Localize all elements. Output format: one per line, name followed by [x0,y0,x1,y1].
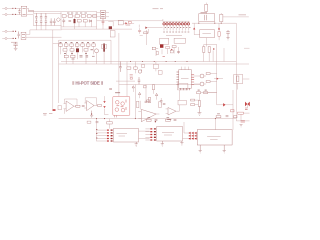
label in box [202,33,211,35]
rail top long y20.8 [97,20,163,22]
op-amp U6B [168,108,176,116]
red diode stack D12 [102,101,107,108]
top right box U3 [199,14,215,21]
resistor [166,119,171,121]
wire [238,79,250,90]
IC2 label [207,137,221,140]
junction dot [155,121,156,122]
below-comb parts marks [156,47,179,56]
transformer B ground 1 [161,141,164,146]
capacitor C24 [160,101,163,102]
box above right 2 [178,100,186,105]
label mark [239,14,247,16]
red diode D5 [218,27,220,29]
cluster left of comb marks [139,25,148,36]
cluster left of comb capacitor C9 [138,30,141,31]
small part vertical [156,52,158,55]
row1 resistor R15 [59,44,63,46]
box around bar [102,44,107,48]
capacitor CY5 [45,13,47,20]
winding grid B left stubs [145,129,150,140]
resistor R50 vertical [152,85,154,90]
wire [194,23,200,35]
varistor RV1 marks [12,8,16,9]
transistor Q1 [109,26,112,29]
row3 box2 [64,55,68,57]
resistor R5 [75,15,79,17]
resistor R3 [62,15,66,17]
capacitor CY1 [35,13,37,20]
wire to fuse [27,9,34,26]
choke L2 box [21,32,26,39]
parts row above transformer B [147,119,152,121]
capacitor CX1 [18,9,20,15]
red LED D11 [53,109,56,111]
op-amp U5B pins [84,103,97,108]
winding grid B red dashes col2 [154,129,156,140]
parts above rail left [43,114,52,115]
junction dots rail [96,118,216,119]
wire to pins [183,122,189,139]
row1 resistor R18 [75,44,79,46]
rail y64 [59,63,249,65]
winding grid B red dashes col1 [150,129,152,140]
parts right of U5B resistor R42 [98,105,102,107]
red transistor Q8 [116,101,120,105]
wire [217,90,233,105]
op-amp U6A big [141,109,156,121]
winding grid A red dashes col1 [107,130,109,141]
wire [199,93,216,101]
wires right edge [236,104,249,121]
transformer B ground 2 [180,141,183,145]
capacitor CX2 [18,31,20,38]
ground U5B [90,111,93,118]
row2 resistor R23 [70,49,74,51]
row1 resistor R20 [86,44,90,46]
ground IC2 left [199,145,202,153]
box U4 [200,30,215,38]
red box bottom stubs [115,115,117,117]
rail y29.9 [30,29,62,31]
row2 capacitor C5 [62,19,65,24]
cluster verticals [61,46,105,64]
comb vertical leads [164,21,188,30]
fuse F1 [29,10,34,12]
inductor box L4 [174,38,185,43]
resistor R33 [206,73,210,75]
varistor RV4 marks [13,38,17,39]
marks [217,113,220,115]
transistor Q6 [200,74,204,78]
transformer A label [117,133,128,136]
wire input bottom [2,14,12,16]
below-comb red resistor R27 [166,47,170,49]
label above red box [115,92,120,94]
connector P1 circle [5,8,7,10]
part below rail [87,121,91,123]
op-amp U6B pins [166,109,180,114]
Y-cap stubs to rail [36,26,46,30]
wire output right [236,16,249,18]
comb diodes D10..D18 rings [163,23,190,25]
small box part [152,47,155,50]
row3 box [71,55,75,57]
IC U2 bottom pin marks [181,88,190,90]
connector P1 circle 2 [5,14,7,16]
inductor box L3 [160,38,169,44]
right mid cluster resistor R36 [197,92,201,94]
capacitor C10 [226,30,230,36]
red diode D7 [217,78,219,80]
capacitor CY2 [35,20,37,25]
input cluster wires/verticals [61,16,119,29]
parts left of U6B: resistor [159,102,161,108]
red dash [163,56,165,58]
wires verticals [135,85,146,119]
component above: resistor R12 [205,4,208,11]
op-amp U5B feedback wire [85,98,96,106]
wire [218,23,220,40]
part above winding grid A [107,122,113,124]
row2 dark transistor Q2 [74,19,76,23]
red mark [130,78,132,80]
row2 resistor R24 [84,49,88,51]
rail y118.6 [59,118,237,120]
input cluster label text row [67,12,87,14]
rail AC top [33,12,61,14]
wire top from fuse [33,10,96,12]
wire [105,96,109,115]
ground IC2 right [223,145,226,153]
vertical x224 [223,48,225,62]
ground under C10 [226,36,229,40]
parts between amps resistor R41 [76,105,80,107]
op-amp U5A [66,101,74,111]
red cluster right edge: resistor R39 [238,112,244,114]
vertical x111 [110,40,112,64]
below-comb dark red part C13 [160,44,163,47]
wire [53,43,62,45]
row2 resistor R8 [83,20,87,22]
capacitor CY6 [45,20,47,25]
capacitor CY earth [13,42,17,47]
resistor R46 [191,104,195,106]
vertical x216.7 [216,62,218,91]
red diode D8 [223,103,226,106]
box part [170,50,173,53]
resistor R6c [93,15,97,17]
wire from choke2 [26,30,62,37]
capacitor C8 [102,19,105,26]
resistor R6 [81,15,85,17]
wire input2 bottom [2,38,12,40]
parts above U6A: resistor R44b [147,100,150,102]
cluster left of comb resistor R10 [144,32,148,34]
box near Q1 [110,31,115,37]
transformer B box [157,127,183,142]
connector P2 circle [5,30,7,32]
wire grid A top [109,119,111,129]
junction dots [198,23,222,24]
varistor RV2 marks [12,14,16,15]
junction dots on rail [130,61,188,62]
wires right of IC [194,74,223,85]
wire [16,9,22,15]
dark bar component [103,44,105,52]
IC label [181,78,189,80]
op-amp U5A pins [64,104,76,109]
driver transformer T3 box [100,11,106,19]
wire vertical right x236.3 [235,23,237,121]
small box part [142,65,145,68]
row2 resistor R7 [77,20,81,22]
wire input top [2,8,12,10]
resistor R51 vertical [148,97,150,102]
ground [198,106,202,115]
resistor R37 [204,92,208,94]
wire [97,12,109,16]
resistor R6b [87,15,91,17]
red diode right edge [245,102,250,107]
connector P2 circle 2 [5,38,7,40]
wire [119,23,134,29]
diode D14 [132,86,134,88]
wire [116,80,135,82]
row2 transistor Q4 [95,49,99,53]
part R49 [144,86,147,88]
row2 marks [64,50,93,54]
IC U2 right pins red [191,75,194,85]
transformer B label [162,132,174,135]
comb value labels [165,26,191,28]
right edge box [234,75,243,84]
cluster left of comb diode D3 [145,27,147,29]
red part D9 [231,110,234,112]
transformer T3 winding marks [101,12,104,16]
red parts cluster resistor R9 [128,22,131,24]
wires [204,45,217,62]
capacitor CY4 [40,20,42,25]
wire fuse node [29,9,34,14]
rail y84.5 [119,84,200,86]
resistor R4 [68,15,73,17]
row2 diode D1 [89,20,91,22]
red transistor Q11 [121,108,125,112]
resistor R35 in box [237,76,239,82]
red parts cluster diode D2 [125,22,127,24]
row1 resistor R19 [81,44,85,46]
marks [148,117,170,119]
winding grid A red dashes col2 [111,130,113,141]
box near red cluster [118,20,123,25]
IC U2 TL494 box [179,70,192,89]
wire comb feed [148,27,163,29]
op-amp U6A pins [138,111,159,118]
capacitor C15 [119,62,122,72]
cap [155,119,158,120]
marks [198,89,207,91]
transistor Q5 [138,70,141,73]
red mark D6 [213,48,215,50]
wire above [205,3,207,14]
row1 resistor R21 [92,44,96,46]
cap [174,119,177,120]
top right block: rail [192,22,236,24]
choke L1 marks [23,9,26,15]
rail AC bottom [33,25,61,27]
row2 resistor R22 [63,49,67,51]
svg-text:!! HI-POT SIDE !!: !! HI-POT SIDE !! [72,81,103,86]
mid-left sub cluster resistor R31 [127,67,131,69]
parts above IC2 right [216,116,221,118]
below-rail stub [155,62,157,72]
box left of op-amp [58,106,61,110]
capacitor C22 [226,116,229,117]
small part [158,71,162,75]
resistor R38 vertical [198,101,200,107]
parts above U6A: vertical resistor R44 [137,101,139,108]
row3 marks [72,56,95,59]
capacitor C16 [138,77,141,84]
wire hi-pot feedback vertical [52,30,54,109]
row1 resistor R17 [70,44,74,46]
label text mark [11,41,18,43]
winding grid A left stubs [97,119,107,142]
capacitor C1 big [50,18,53,25]
comb name labels [163,31,189,33]
junction dot [91,113,92,114]
input cluster vertical left [60,12,62,29]
red marks below [245,108,248,110]
red marks in box [116,100,126,111]
row2 dark transistor Q3 [76,48,79,52]
hipot wire top y40 [59,39,111,41]
red marks [241,121,245,122]
choke L1 box [21,6,26,16]
below-comb small cap C14 [177,52,180,53]
capacitor C17 [82,105,85,106]
wire stub right edge y48 [244,47,250,49]
capacitor C2 big [53,18,56,25]
transformer A box [113,129,138,143]
capacitor CY3 [40,13,42,20]
wire rail to IC2 [214,119,216,130]
wire [103,21,113,29]
text under U6B [167,119,171,121]
resistor R11 inside [205,15,207,20]
vertical feed down [146,30,148,45]
red cluster small parts [130,75,133,76]
diode D15 [138,92,140,94]
transformer A ground [135,142,138,146]
comb label row2 [166,34,182,36]
row2 marks [69,21,72,22]
red pin grid 3x3 [189,133,197,139]
wire U4 down [206,38,208,47]
IC U2 top wires [182,67,189,70]
red transistor Q10 [115,108,119,112]
cluster x200 y46 resistor R29 [203,47,205,53]
wire to arrow [221,13,236,23]
vertical x58.6 [58,40,60,103]
wires [179,90,198,111]
label above box [201,12,207,14]
ground earth [14,47,18,51]
red resistor R14 [218,32,220,37]
grid A left pads [96,130,97,138]
red transistor Q9 [121,102,125,106]
below-comb resistor R28 [172,46,176,48]
vertical x233 [232,90,234,130]
below-rail box [154,64,159,68]
resistor R13 [220,14,223,21]
mid rail y61.5 [61,61,236,63]
red pin grid verticals [190,132,196,140]
wires A to B [139,131,150,138]
red diode D4 [193,27,195,29]
ground [240,125,243,128]
wires [119,33,142,96]
wire vertical x96.6 [96,11,98,29]
wires small [133,88,161,105]
IC U2 left pins [177,72,179,85]
marks [163,103,166,104]
varistor RV3 marks [13,31,17,32]
choke L2 marks [22,34,25,37]
wire input2 top [2,30,12,32]
resistor R32 [134,67,138,69]
resistor R34 [206,81,210,83]
parts above U6A: cap C20 [145,101,148,102]
parts right resistor R45 [191,99,195,101]
resistor R30 [208,47,210,53]
mid cluster row1 label marks [60,42,95,44]
red box SCR module [113,96,130,115]
bridge rectifier BR1 [56,18,60,22]
wires box to rail [199,21,215,23]
output diode comb: top rail [163,19,190,21]
part [234,116,237,118]
IC2 box [197,130,232,145]
row1 resistor R16 [64,44,68,46]
box above right 1 [178,84,188,90]
red parts small mark [126,24,131,26]
capacitor C18 [96,122,99,123]
part above left of red box [109,89,112,90]
label top mid [153,8,164,10]
transistor Q7 [200,82,204,86]
op-amp U5A feedback wire [65,99,78,114]
below-comb red mark [171,49,173,51]
op-amp U5B [87,101,95,111]
diode D16 [155,93,157,95]
